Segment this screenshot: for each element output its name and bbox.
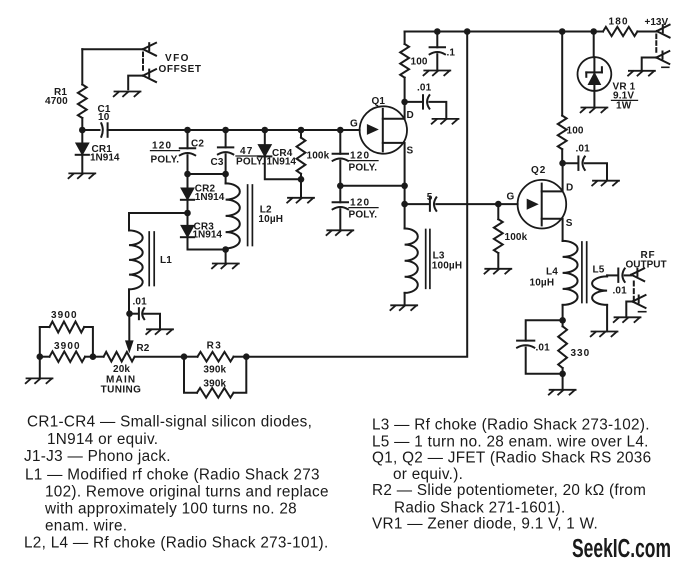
svg-text:120: 120: [152, 141, 172, 152]
svg-text:100: 100: [411, 57, 428, 68]
svg-text:1N914: 1N914: [193, 230, 223, 241]
svg-text:L4: L4: [546, 267, 558, 278]
svg-text:1N914: 1N914: [195, 192, 225, 203]
svg-text:S: S: [407, 146, 414, 157]
svg-text:102). Remove original turns a: 102). Remove original turns and replace: [45, 484, 329, 501]
svg-text:120: 120: [350, 198, 370, 209]
svg-text:POLY.: POLY.: [349, 163, 378, 174]
svg-text:Q1, Q2 — JFET (Radio Shack RS: Q1, Q2 — JFET (Radio Shack RS 2036: [372, 449, 651, 466]
svg-text:10: 10: [98, 112, 110, 123]
svg-text:.01: .01: [133, 297, 148, 308]
svg-text:L5: L5: [593, 265, 605, 276]
svg-text:C3: C3: [211, 157, 224, 168]
svg-text:R2: R2: [136, 343, 149, 354]
svg-text:180: 180: [609, 17, 629, 28]
svg-text:VR1 — Zener diode, 9.1 V, 1 W.: VR1 — Zener diode, 9.1 V, 1 W.: [372, 516, 598, 533]
svg-text:1N914: 1N914: [267, 156, 297, 167]
svg-text:Q2: Q2: [531, 165, 546, 176]
svg-text:POLY.: POLY.: [236, 157, 265, 168]
svg-text:390k: 390k: [203, 379, 226, 390]
svg-text:Radio Shack 271-1601).: Radio Shack 271-1601).: [394, 499, 566, 516]
svg-text:100: 100: [567, 126, 584, 137]
svg-text:R3: R3: [207, 341, 223, 352]
svg-text:J1-J3 — Phono jack.: J1-J3 — Phono jack.: [24, 448, 171, 465]
svg-text:1N914 or equiv.: 1N914 or equiv.: [47, 431, 158, 448]
svg-text:POLY.: POLY.: [151, 155, 180, 166]
svg-text:L2, L4 — Rf choke (Radio Shack: L2, L4 — Rf choke (Radio Shack 273-101).: [24, 535, 329, 552]
svg-text:10µH: 10µH: [530, 278, 555, 289]
svg-text:with approximately 100 turns n: with approximately 100 turns no. 28: [44, 501, 297, 518]
svg-text:POLY.: POLY.: [349, 210, 378, 221]
svg-text:L5 — 1 turn no. 28 enam. wire: L5 — 1 turn no. 28 enam. wire over L4.: [372, 434, 649, 451]
svg-text:.1: .1: [447, 48, 456, 59]
svg-text:enam. wire.: enam. wire.: [45, 517, 127, 534]
svg-text:Q1: Q1: [372, 96, 386, 107]
svg-text:47: 47: [240, 146, 254, 157]
svg-text:390k: 390k: [203, 364, 226, 375]
svg-text:10µH: 10µH: [258, 214, 283, 225]
svg-text:D: D: [566, 183, 573, 194]
svg-text:1W: 1W: [616, 101, 632, 112]
svg-text:D: D: [407, 110, 414, 121]
svg-text:3900: 3900: [51, 310, 78, 321]
svg-text:1N914: 1N914: [90, 153, 120, 164]
svg-text:CR1-CR4 — Small-signal silicon: CR1-CR4 — Small-signal silicon diodes,: [27, 414, 312, 431]
svg-text:100k: 100k: [505, 232, 528, 243]
svg-text:.01: .01: [613, 286, 628, 297]
svg-text:330: 330: [571, 348, 591, 359]
svg-text:+13V: +13V: [645, 17, 669, 28]
svg-text:OUTPUT: OUTPUT: [626, 260, 667, 271]
svg-text:G: G: [350, 119, 358, 130]
svg-text:100k: 100k: [307, 151, 330, 162]
svg-text:or equiv.).: or equiv.).: [393, 466, 463, 483]
svg-text:120: 120: [350, 151, 370, 162]
svg-text:C2: C2: [191, 139, 204, 150]
svg-text:S: S: [566, 218, 573, 229]
svg-text:L3 — Rf choke (Radio Shack 273: L3 — Rf choke (Radio Shack 273-102).: [372, 416, 650, 433]
svg-text:4700: 4700: [45, 96, 68, 107]
svg-text:TUNING: TUNING: [101, 385, 142, 396]
svg-text:L1: L1: [160, 255, 172, 266]
svg-text:3900: 3900: [54, 341, 81, 352]
svg-text:5: 5: [427, 192, 433, 203]
svg-text:R2 — Slide potentiometer, 20 k: R2 — Slide potentiometer, 20 kΩ (from: [372, 482, 646, 499]
svg-text:.01: .01: [417, 83, 432, 94]
svg-text:VFO: VFO: [165, 53, 190, 64]
svg-text:.01: .01: [576, 144, 591, 155]
svg-text:100µH: 100µH: [432, 260, 462, 271]
svg-text:OFFSET: OFFSET: [159, 64, 202, 75]
svg-text:20k: 20k: [113, 364, 130, 375]
svg-text:SeekIC.com: SeekIC.com: [572, 535, 671, 563]
svg-text:.01: .01: [536, 343, 551, 354]
svg-text:G: G: [507, 192, 515, 203]
svg-text:L1 — Modified rf choke (Radio: L1 — Modified rf choke (Radio Shack 273: [25, 466, 320, 483]
